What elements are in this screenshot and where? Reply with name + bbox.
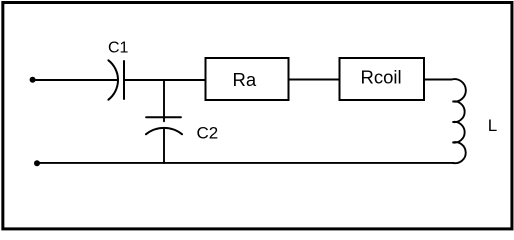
svg-text:C1: C1 [108, 39, 129, 56]
svg-text:C2: C2 [197, 123, 219, 142]
svg-text:L: L [488, 116, 497, 135]
svg-text:Ra: Ra [233, 69, 257, 90]
svg-text:Rcoil: Rcoil [361, 66, 402, 87]
